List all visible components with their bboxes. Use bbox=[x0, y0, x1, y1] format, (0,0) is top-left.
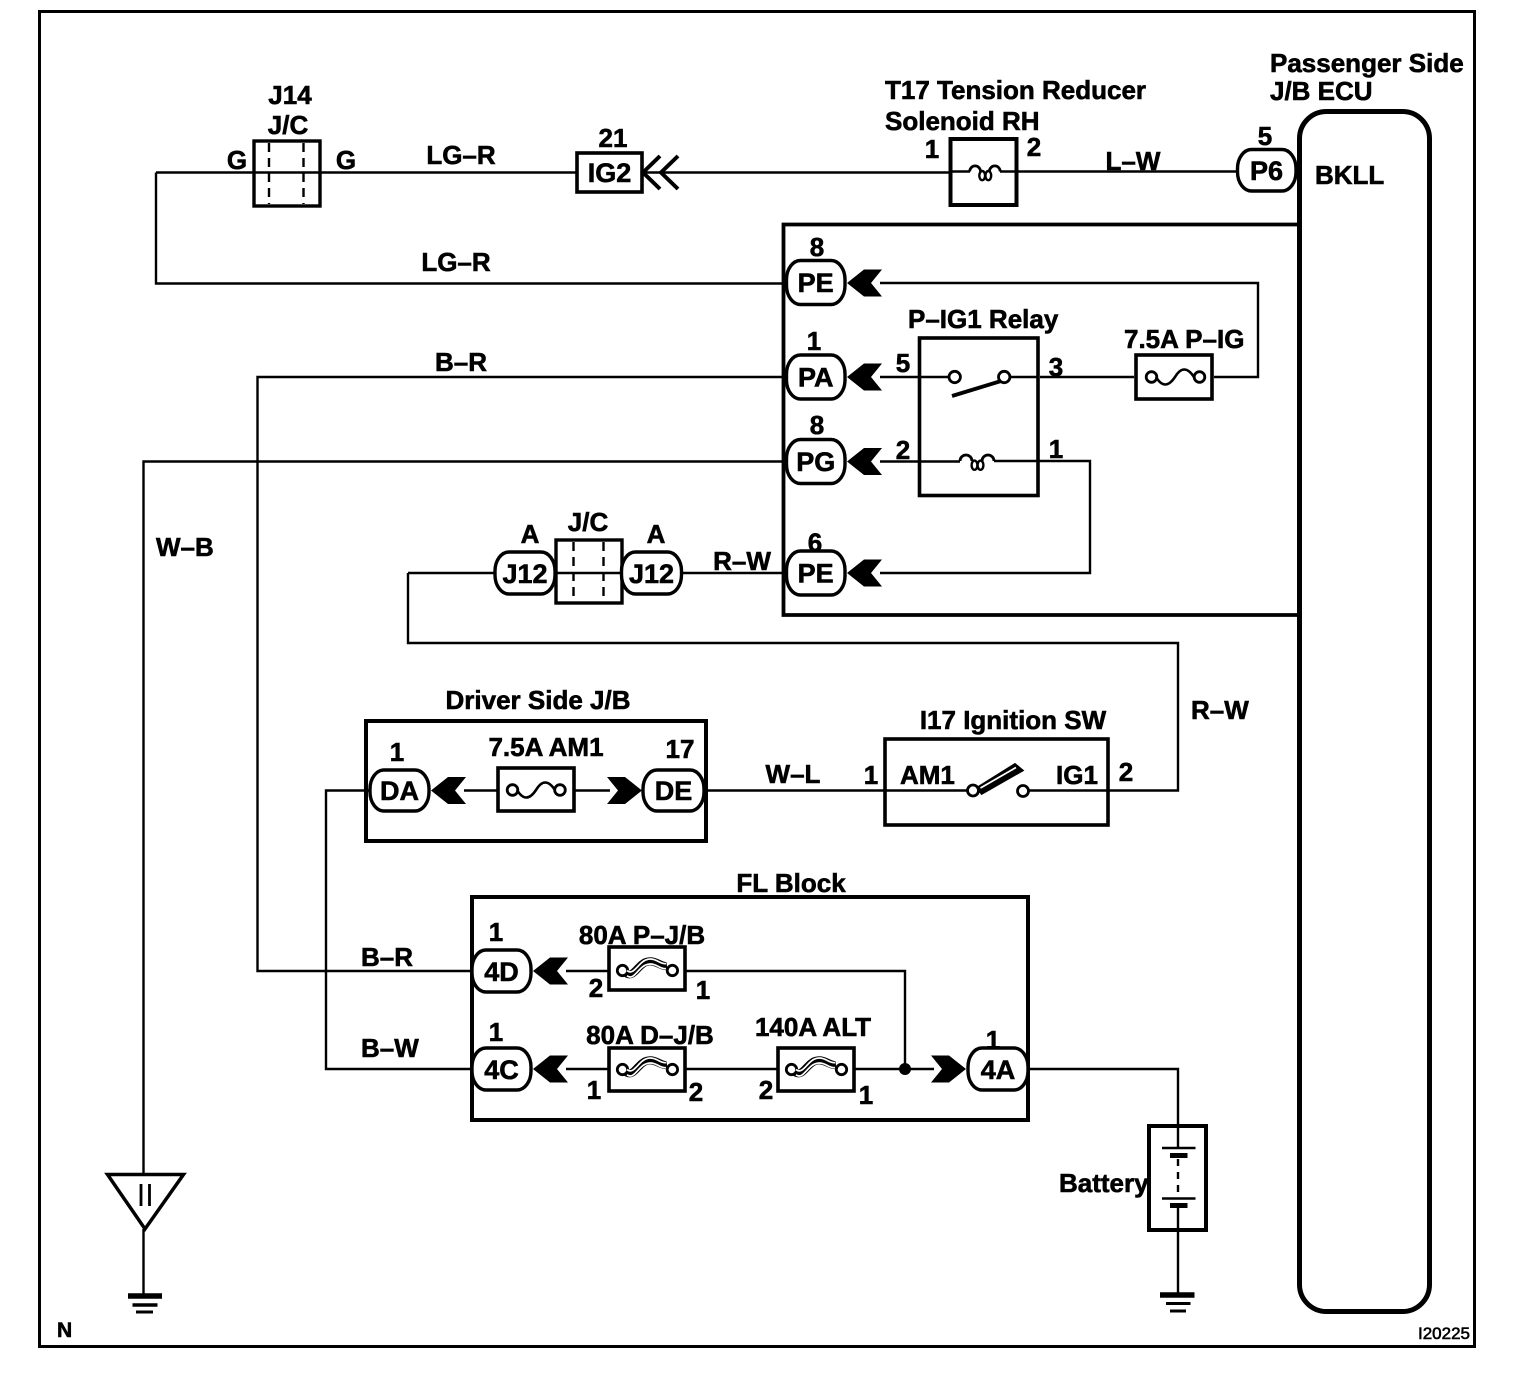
svg-text:Battery: Battery bbox=[1059, 1168, 1149, 1198]
svg-text:1: 1 bbox=[986, 1025, 1000, 1055]
wire 80A D-J/B to 140A ALT bbox=[683, 1068, 780, 1070]
svg-text:J/B ECU: J/B ECU bbox=[1270, 76, 1373, 106]
svg-text:DA: DA bbox=[380, 776, 419, 806]
connector 4C oval bbox=[472, 1048, 531, 1090]
wire 4C arrow to 80A D-J/B fuse bbox=[566, 1068, 611, 1070]
svg-text:LG–R: LG–R bbox=[426, 140, 496, 170]
fuse 7.5A AM1 box bbox=[498, 768, 574, 811]
fuse 140A ALT box bbox=[778, 1048, 854, 1091]
ignition switch contacts bbox=[968, 785, 979, 796]
svg-text:80A D–J/B: 80A D–J/B bbox=[586, 1020, 714, 1050]
svg-text:T17 Tension Reducer: T17 Tension Reducer bbox=[885, 75, 1146, 105]
svg-text:AM1: AM1 bbox=[900, 760, 955, 790]
wire 140A ALT to 4A arrow bbox=[852, 1068, 934, 1070]
solenoid T17 box bbox=[951, 139, 1017, 205]
svg-text:1: 1 bbox=[807, 326, 821, 356]
svg-text:PG: PG bbox=[796, 447, 835, 477]
svg-text:6: 6 bbox=[808, 528, 822, 558]
FL Block box bbox=[472, 897, 1028, 1120]
wire W-B from PG down to ground triangle bbox=[144, 462, 791, 1176]
arrow at PE8 bbox=[847, 270, 882, 297]
svg-text:J/C: J/C bbox=[268, 110, 309, 140]
connector 4D oval bbox=[472, 950, 531, 992]
svg-text:5: 5 bbox=[1258, 121, 1272, 151]
svg-text:1: 1 bbox=[696, 975, 710, 1005]
svg-text:J12: J12 bbox=[502, 559, 547, 589]
arrow at 4D bbox=[533, 958, 568, 985]
svg-text:G: G bbox=[336, 145, 356, 175]
svg-text:R–W: R–W bbox=[713, 546, 771, 576]
wire AM1 fuse to DE arrow bbox=[572, 789, 610, 791]
svg-text:J12: J12 bbox=[629, 559, 674, 589]
svg-text:Driver Side J/B: Driver Side J/B bbox=[446, 685, 631, 715]
svg-text:5: 5 bbox=[896, 348, 910, 378]
svg-text:1: 1 bbox=[587, 1075, 601, 1105]
svg-text:1: 1 bbox=[489, 1017, 503, 1047]
svg-text:8: 8 bbox=[810, 410, 824, 440]
battery box bbox=[1149, 1126, 1206, 1230]
svg-text:1: 1 bbox=[390, 737, 404, 767]
wire ignition internal stubs bbox=[885, 789, 1108, 791]
arrow at DA bbox=[431, 777, 466, 804]
svg-text:8: 8 bbox=[810, 232, 824, 262]
wire R-W from J12 down across to ignition switch pin 2 bbox=[408, 573, 1178, 791]
junction dot bbox=[899, 1063, 911, 1075]
wire 80A P-J/B fuse to junction riser bbox=[683, 971, 905, 1069]
connector DA oval bbox=[370, 770, 429, 811]
Passenger Side J/B ECU body bbox=[1300, 112, 1430, 1312]
connector J12 left oval bbox=[495, 552, 555, 594]
svg-text:2: 2 bbox=[1119, 757, 1133, 787]
svg-text:140A ALT: 140A ALT bbox=[755, 1012, 871, 1042]
svg-text:2: 2 bbox=[689, 1077, 703, 1107]
connector PE pin 6 oval bbox=[787, 551, 846, 595]
relay P-IG1 box bbox=[920, 338, 1039, 496]
battery plates bbox=[1162, 1147, 1196, 1150]
arrow at 4C bbox=[533, 1056, 568, 1083]
junction connector J12 J/C box bbox=[556, 540, 622, 603]
svg-text:21: 21 bbox=[599, 123, 628, 153]
wire PE8 to P-IG fuse via right riser bbox=[880, 283, 1258, 377]
connector DE oval bbox=[643, 770, 704, 811]
wire relay contact internal stubs bbox=[918, 376, 1039, 378]
junction connector J14 J/C box bbox=[254, 141, 320, 206]
Passenger side J/B inner box bbox=[784, 225, 1300, 616]
ignition switch I17 box bbox=[885, 739, 1108, 825]
svg-text:17: 17 bbox=[666, 734, 695, 764]
svg-text:R–W: R–W bbox=[1191, 695, 1249, 725]
wire DA down to 4C bbox=[326, 791, 474, 1070]
svg-text:3: 3 bbox=[1049, 352, 1063, 382]
svg-text:1: 1 bbox=[489, 917, 503, 947]
svg-text:P–IG1 Relay: P–IG1 Relay bbox=[908, 304, 1059, 334]
svg-text:A: A bbox=[647, 519, 666, 549]
arrow at PG bbox=[847, 448, 882, 475]
svg-text:A: A bbox=[521, 519, 540, 549]
fuse 7.5A P-IG box bbox=[1136, 355, 1212, 399]
relay contact circles and arm bbox=[949, 371, 960, 382]
Driver Side J/B box bbox=[366, 721, 706, 841]
ground symbol below battery bbox=[1160, 1292, 1195, 1298]
ground triangle II bbox=[108, 1175, 184, 1230]
arrow at PE6 bbox=[847, 560, 882, 587]
arrow at PA bbox=[847, 364, 882, 391]
svg-text:4D: 4D bbox=[484, 957, 519, 987]
wire relay pin 5 to PA arrow bbox=[880, 376, 920, 378]
svg-text:7.5A P–IG: 7.5A P–IG bbox=[1124, 324, 1244, 354]
svg-text:L–W: L–W bbox=[1106, 146, 1161, 176]
wire ground triangle to ground symbol bbox=[142, 1229, 144, 1294]
svg-text:W–L: W–L bbox=[766, 759, 821, 789]
solenoid coil bbox=[970, 166, 1001, 172]
svg-text:7.5A AM1: 7.5A AM1 bbox=[488, 732, 603, 762]
svg-text:J14: J14 bbox=[268, 80, 312, 110]
ignition switch arm bbox=[977, 764, 1024, 795]
wire B-R from PA down to 4D bbox=[258, 377, 791, 971]
wire PG arrow to relay coil pin 2 bbox=[880, 460, 960, 462]
connector IG2 box bbox=[577, 153, 642, 192]
svg-text:2: 2 bbox=[589, 973, 603, 1003]
svg-text:Solenoid RH: Solenoid RH bbox=[885, 106, 1040, 136]
wire R-W J12 to PE pin 6 row bbox=[408, 572, 790, 574]
arrow into 4A bbox=[931, 1056, 966, 1083]
svg-text:PE: PE bbox=[798, 559, 834, 589]
connector PA pin 1 oval bbox=[787, 355, 846, 399]
svg-text:2: 2 bbox=[896, 435, 910, 465]
connector P6 oval bbox=[1238, 150, 1297, 192]
svg-text:B–R: B–R bbox=[435, 347, 487, 377]
svg-text:4A: 4A bbox=[981, 1055, 1016, 1085]
svg-text:80A P–J/B: 80A P–J/B bbox=[579, 920, 705, 950]
connector PG pin 8 oval bbox=[787, 440, 846, 484]
arrow into DE bbox=[607, 777, 642, 804]
svg-text:W–B: W–B bbox=[156, 532, 214, 562]
connector 4A oval bbox=[968, 1048, 1028, 1090]
svg-text:2: 2 bbox=[1027, 132, 1041, 162]
svg-text:I17 Ignition SW: I17 Ignition SW bbox=[920, 705, 1107, 735]
svg-text:DE: DE bbox=[655, 776, 693, 806]
svg-text:4C: 4C bbox=[484, 1055, 519, 1085]
svg-text:IG2: IG2 bbox=[588, 158, 632, 188]
svg-text:I20225: I20225 bbox=[1418, 1324, 1470, 1343]
ground symbol bottom left bbox=[128, 1293, 162, 1299]
svg-text:Passenger Side: Passenger Side bbox=[1270, 48, 1464, 78]
wire DA arrow to AM1 fuse bbox=[464, 789, 500, 791]
svg-text:PE: PE bbox=[798, 268, 834, 298]
svg-text:1: 1 bbox=[859, 1080, 873, 1110]
svg-text:1: 1 bbox=[925, 134, 939, 164]
relay coil bbox=[960, 455, 994, 461]
wire LG-R left drop and lower run to PE pin 8 bbox=[156, 173, 790, 284]
svg-text:B–R: B–R bbox=[361, 942, 413, 972]
wire L-W solenoid to P6 bbox=[950, 170, 1240, 172]
wire 4A to battery bbox=[1026, 1069, 1178, 1148]
connector J12 right oval bbox=[622, 552, 682, 594]
svg-text:B–W: B–W bbox=[361, 1033, 419, 1063]
wire W-L DE to ignition pin 1 bbox=[702, 789, 886, 791]
wire battery internal dashed cell link bbox=[1177, 1159, 1179, 1197]
svg-text:1: 1 bbox=[1049, 434, 1063, 464]
svg-text:IG1: IG1 bbox=[1056, 760, 1098, 790]
connector PE pin 8 oval bbox=[787, 261, 846, 305]
svg-text:PA: PA bbox=[798, 363, 834, 393]
svg-text:G: G bbox=[227, 145, 247, 175]
wire LG-R top run from J14 to solenoid bbox=[156, 171, 950, 173]
fuse 80A P-J/B box bbox=[609, 947, 685, 990]
svg-text:N: N bbox=[57, 1319, 72, 1342]
wire battery negative to ground bbox=[1177, 1206, 1179, 1294]
svg-text:LG–R: LG–R bbox=[421, 247, 491, 277]
svg-text:2: 2 bbox=[759, 1075, 773, 1105]
svg-text:BKLL: BKLL bbox=[1315, 160, 1384, 190]
fuse 80A D-J/B box bbox=[609, 1048, 685, 1091]
svg-text:J/C: J/C bbox=[568, 507, 609, 537]
wire fuse to relay contact pin 3 bbox=[1040, 376, 1134, 378]
wire relay coil pin 1 down to PE pin 6 bbox=[880, 461, 1090, 573]
svg-text:1: 1 bbox=[864, 760, 878, 790]
wire 4D arrow to 80A P-J/B fuse bbox=[566, 970, 611, 972]
svg-text:FL Block: FL Block bbox=[736, 868, 846, 898]
svg-text:P6: P6 bbox=[1250, 156, 1283, 186]
chevron arrows at IG2 bbox=[643, 156, 678, 189]
